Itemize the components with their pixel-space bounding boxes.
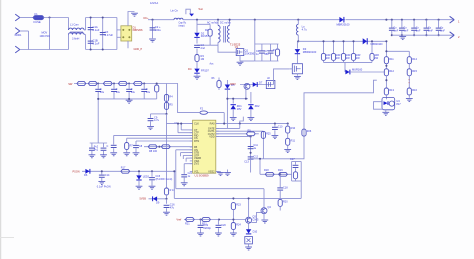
svg-text:VSS2: VSS2 [208, 170, 215, 174]
svg-text:C20: C20 [221, 224, 226, 227]
svg-text:ZVS: ZVS [194, 162, 199, 166]
svg-text:R24: R24 [236, 224, 241, 227]
svg-text:1mF: 1mF [416, 29, 421, 32]
svg-text:0.1uF: 0.1uF [93, 28, 100, 32]
svg-text:4.7u: 4.7u [302, 27, 308, 31]
svg-text:R16: R16 [412, 88, 417, 92]
svg-text:R12: R12 [389, 69, 394, 73]
svg-text:2n2: 2n2 [201, 46, 206, 50]
svg-text:Pv1: Pv1 [94, 148, 99, 151]
svg-text:R17: R17 [121, 166, 126, 169]
svg-text:D10: D10 [253, 231, 258, 234]
svg-text:R26: R26 [307, 130, 312, 133]
svg-text:R23: R23 [236, 204, 241, 207]
svg-text:DC no/Vs: DC no/Vs [220, 22, 231, 25]
svg-text:47u: 47u [170, 205, 175, 209]
svg-text:RTN: RTN [194, 139, 199, 143]
svg-text:0.47uF: 0.47uF [105, 33, 114, 37]
svg-text:ZD2: ZD2 [255, 104, 260, 108]
svg-text:RA0: RA0 [210, 122, 216, 126]
svg-text:0.1uF: 0.1uF [93, 42, 100, 46]
svg-text:(map): (map) [179, 25, 185, 27]
svg-text:GND1: GND1 [15, 34, 23, 37]
svg-text:R15: R15 [412, 69, 417, 73]
svg-text:10D471K: 10D471K [40, 35, 51, 38]
svg-text:FUSE: FUSE [34, 20, 41, 24]
svg-text:1mF: 1mF [428, 29, 433, 32]
svg-text:C17: C17 [290, 158, 295, 161]
svg-text:R2: R2 [205, 28, 209, 32]
svg-text:3.6mH: 3.6mH [72, 37, 80, 40]
svg-text:R11: R11 [389, 57, 394, 61]
svg-text:LED1: LED1 [143, 174, 150, 178]
svg-text:GND_P: GND_P [134, 48, 143, 51]
svg-text:10u: 10u [116, 91, 121, 94]
svg-text:VCL: VCL [194, 170, 200, 174]
svg-text:R13: R13 [389, 88, 394, 92]
svg-text:18V: 18V [237, 107, 242, 111]
svg-text:C10: C10 [278, 125, 283, 128]
svg-text:R5: R5 [169, 103, 173, 107]
svg-text:KBP206: KBP206 [133, 28, 143, 32]
svg-text:C18: C18 [283, 187, 288, 190]
svg-text:R14: R14 [412, 57, 417, 61]
svg-text:U1 SG6859: U1 SG6859 [195, 173, 210, 177]
svg-text:R20: R20 [283, 201, 288, 204]
svg-text:2W: 2W [356, 57, 360, 60]
svg-text:PSON: PSON [73, 170, 80, 173]
svg-text:C945: C945 [252, 218, 259, 221]
svg-text:0.1uF PvON: 0.1uF PvON [97, 185, 111, 188]
svg-text:MBR20100: MBR20100 [337, 23, 351, 27]
svg-text:D6: D6 [84, 173, 88, 177]
svg-text:Cap Rc: Cap Rc [179, 23, 188, 25]
svg-text:SW: SW [68, 82, 73, 86]
svg-text:CLK: CLK [194, 122, 199, 126]
svg-text:C: C [107, 145, 109, 148]
svg-text:2W: 2W [326, 57, 330, 60]
svg-text:10u: 10u [131, 91, 136, 94]
svg-text:R21: R21 [185, 222, 190, 225]
svg-text:FR107: FR107 [201, 69, 209, 73]
svg-text:1M: 1M [201, 57, 205, 61]
svg-text:F1: F1 [35, 12, 39, 16]
svg-text:C12: C12 [253, 155, 258, 158]
svg-text:Vref: Vref [176, 218, 181, 222]
svg-text:10u: 10u [100, 91, 105, 94]
svg-text:Test: Test [198, 8, 203, 11]
svg-text:681: 681 [265, 53, 270, 56]
svg-text:1mF: 1mF [393, 29, 398, 32]
svg-text:2200p: 2200p [203, 226, 211, 230]
svg-text:Lin Ctr: Lin Ctr [171, 9, 179, 12]
svg-text:R10: R10 [291, 127, 296, 130]
svg-text:MUR160: MUR160 [352, 68, 363, 72]
svg-text:VDD: VDD [209, 135, 215, 139]
svg-text:AC no/Vp: AC no/Vp [207, 22, 218, 25]
svg-text:D4: D4 [188, 67, 192, 71]
svg-text:R18: R18 [264, 169, 269, 172]
svg-text:1mF: 1mF [404, 29, 409, 32]
svg-text:CS: CS [235, 47, 239, 49]
svg-text:2W: 2W [374, 57, 378, 60]
svg-text:MBR20100: MBR20100 [303, 50, 317, 54]
svg-text:R8 100: R8 100 [149, 150, 158, 153]
svg-text:1mF: 1mF [440, 29, 445, 32]
svg-text:R4: R4 [169, 95, 173, 99]
svg-text:10u: 10u [146, 91, 151, 94]
svg-text:(PvOFF Cont): (PvOFF Cont) [156, 177, 173, 181]
svg-text:R25: R25 [266, 133, 271, 136]
svg-text:C14: C14 [105, 174, 110, 177]
svg-text:C13: C13 [244, 160, 249, 163]
svg-text:DRV: DRV [230, 82, 236, 86]
svg-text:D7: D7 [259, 81, 263, 85]
svg-text:R11: R11 [291, 139, 296, 142]
svg-text:2W: 2W [336, 57, 340, 60]
svg-text:2W: 2W [346, 57, 350, 60]
svg-text:Q4: Q4 [267, 205, 271, 209]
svg-text:4.7u: 4.7u [154, 118, 160, 122]
svg-text:817: 817 [396, 102, 401, 106]
svg-text:12V/1A: 12V/1A [150, 2, 159, 5]
svg-text:L1 Com: L1 Com [70, 24, 79, 27]
svg-text:R19: R19 [278, 169, 283, 172]
svg-text:D9: D9 [156, 201, 160, 205]
svg-text:5VSB: 5VSB [140, 198, 147, 201]
svg-text:R: R [273, 49, 275, 52]
svg-text:100u: 100u [155, 28, 161, 32]
